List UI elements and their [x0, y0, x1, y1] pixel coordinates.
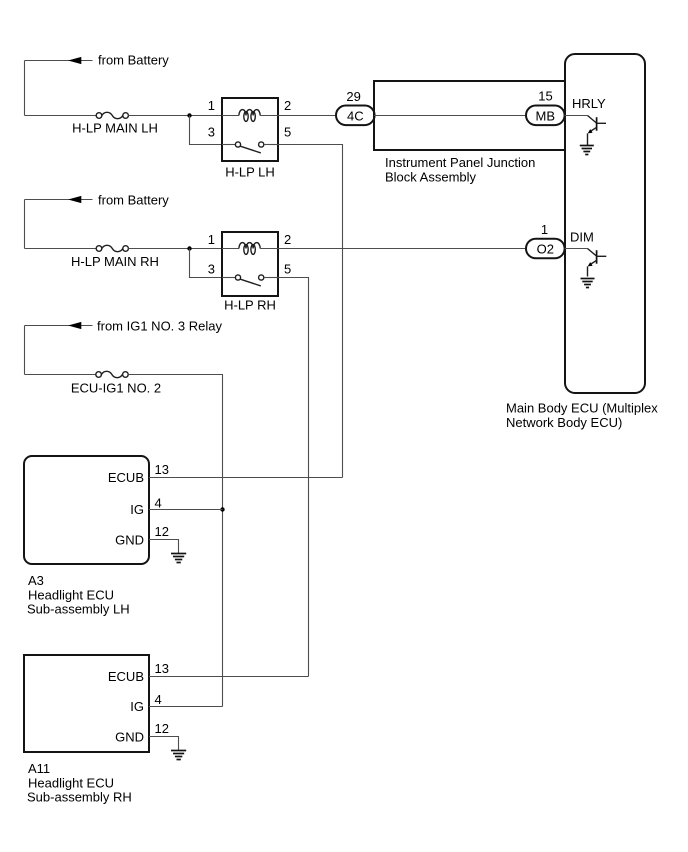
- fuse ECU-IG1 NO. 2: [96, 371, 128, 377]
- svg-text:IG: IG: [130, 502, 144, 517]
- wire from Battery feed RH: [25, 200, 93, 249]
- wire A3 GND: [149, 540, 179, 554]
- ground A11: [171, 751, 186, 760]
- wire A11 ECUB: [149, 676, 309, 678]
- svg-text:13: 13: [155, 661, 169, 676]
- wire A11 IG: [149, 706, 223, 708]
- fuse H-LP MAIN LH: [96, 112, 128, 118]
- svg-text:A11: A11: [28, 761, 50, 776]
- svg-text:12: 12: [155, 721, 169, 736]
- node junction dot IG feed at A3: [220, 507, 224, 511]
- wire from IG1 NO. 3 Relay feed: [25, 326, 93, 375]
- wire 4C to MB inside junction block: [374, 115, 526, 117]
- wire junction to relay pin 3: [190, 116, 223, 145]
- svg-text:ECU-IG1 NO. 2: ECU-IG1 NO. 2: [71, 381, 161, 396]
- connector 4C oval: [336, 106, 375, 126]
- svg-text:5: 5: [284, 261, 291, 276]
- node junction dot RH: [187, 246, 191, 250]
- wire A11 GND: [149, 737, 179, 751]
- svg-text:from Battery: from Battery: [98, 192, 169, 207]
- wire fuse ECU-IG1 down IG feed: [128, 375, 222, 707]
- arrowhead from Battery RH: [68, 196, 81, 203]
- ground HRLY: [580, 146, 594, 155]
- svg-text:3: 3: [208, 125, 215, 140]
- svg-text:2: 2: [284, 232, 291, 247]
- svg-text:Headlight ECU: Headlight ECU: [28, 588, 114, 603]
- svg-text:Sub-assembly RH: Sub-assembly RH: [27, 790, 132, 805]
- svg-text:ECUB: ECUB: [108, 669, 144, 684]
- headlight ECU A11 box: [24, 655, 149, 752]
- wire relay LH pin 2 to connector 4C: [278, 115, 336, 117]
- relay H-LP RH coil: [222, 243, 278, 255]
- transistor DIM: [565, 249, 607, 277]
- wire battery to fuse H-LP MAIN LH: [25, 115, 97, 117]
- wire A3 ECUB: [149, 477, 343, 479]
- svg-text:5: 5: [284, 125, 291, 140]
- relay H-LP LH coil: [222, 110, 278, 122]
- svg-text:IG: IG: [130, 699, 144, 714]
- wire relay RH pin 2 to connector O2: [278, 248, 526, 250]
- svg-text:H-LP LH: H-LP LH: [225, 165, 275, 180]
- ground A3: [171, 554, 186, 563]
- svg-text:from Battery: from Battery: [98, 53, 169, 68]
- wire to fuse ECU-IG1 NO. 2: [25, 374, 96, 376]
- connector MB oval: [526, 106, 565, 126]
- relay H-LP LH switch: [222, 142, 278, 153]
- svg-text:1: 1: [208, 232, 215, 247]
- wire battery to fuse H-LP MAIN RH: [25, 248, 97, 250]
- svg-text:DIM: DIM: [570, 229, 594, 244]
- wire relay LH pin 5 down to A3 ECUB: [278, 145, 343, 478]
- relay H-LP RH box: [222, 232, 278, 296]
- wire junction to relay RH pin 3: [190, 249, 223, 278]
- svg-text:ECUB: ECUB: [108, 470, 144, 485]
- svg-text:4: 4: [155, 495, 162, 510]
- wire fuse to relay RH pin 1: [128, 248, 222, 250]
- Main Body ECU box: [565, 54, 645, 393]
- arrowhead from IG1 NO. 3 Relay: [68, 322, 81, 329]
- connector O2 oval: [526, 239, 565, 259]
- svg-text:Main Body ECU (Multiplex: Main Body ECU (Multiplex: [506, 401, 658, 416]
- svg-text:H-LP RH: H-LP RH: [224, 297, 276, 312]
- fuse H-LP MAIN RH: [96, 245, 128, 251]
- wire fuse to relay pin 1: [128, 115, 222, 117]
- svg-text:O2: O2: [537, 242, 554, 257]
- svg-text:2: 2: [284, 98, 291, 113]
- node junction dot LH: [187, 113, 191, 117]
- wire relay RH pin 5 down to A11 ECUB: [278, 278, 309, 677]
- svg-text:1: 1: [541, 222, 548, 237]
- svg-text:Headlight ECU: Headlight ECU: [28, 775, 114, 790]
- svg-text:13: 13: [155, 462, 169, 477]
- wire A3 IG: [149, 509, 223, 511]
- svg-text:4: 4: [155, 692, 162, 707]
- svg-text:4C: 4C: [347, 108, 364, 123]
- svg-text:H-LP MAIN LH: H-LP MAIN LH: [72, 120, 158, 135]
- svg-text:A3: A3: [28, 573, 44, 588]
- svg-text:HRLY: HRLY: [572, 96, 606, 111]
- svg-text:MB: MB: [536, 108, 556, 123]
- svg-text:from IG1 NO. 3 Relay: from IG1 NO. 3 Relay: [97, 318, 222, 333]
- svg-text:Sub-assembly LH: Sub-assembly LH: [27, 602, 130, 617]
- svg-text:1: 1: [208, 98, 215, 113]
- Instrument Panel Junction Block box: [374, 81, 565, 150]
- svg-text:Network Body ECU): Network Body ECU): [506, 415, 622, 430]
- svg-text:GND: GND: [115, 532, 144, 547]
- transistor HRLY: [565, 116, 607, 146]
- svg-text:GND: GND: [115, 729, 144, 744]
- arrowhead from Battery LH: [68, 57, 81, 64]
- ground DIM: [581, 279, 595, 288]
- svg-text:Block Assembly: Block Assembly: [385, 170, 477, 185]
- wire from Battery feed LH (horizontal + left drop): [25, 61, 93, 116]
- svg-text:H-LP MAIN RH: H-LP MAIN RH: [71, 254, 159, 269]
- svg-text:3: 3: [208, 261, 215, 276]
- svg-text:29: 29: [346, 89, 360, 104]
- svg-text:15: 15: [538, 89, 552, 104]
- svg-text:12: 12: [155, 524, 169, 539]
- relay H-LP RH switch: [222, 275, 278, 286]
- relay H-LP LH box: [222, 98, 278, 161]
- svg-text:Instrument Panel Junction: Instrument Panel Junction: [385, 155, 535, 170]
- headlight ECU A3 box: [24, 456, 149, 564]
